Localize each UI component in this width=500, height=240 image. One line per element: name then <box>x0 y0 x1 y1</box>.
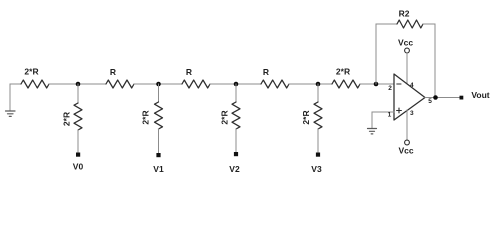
resistor R2 (feedback, horizontal) <box>397 20 423 28</box>
resistor 2*R (V3 branch, vertical) <box>314 102 322 129</box>
svg-text:5: 5 <box>428 98 432 105</box>
op-amp minus sign <box>397 83 401 85</box>
wire V3 branch upper <box>317 84 319 102</box>
svg-text:R2: R2 <box>399 9 410 19</box>
svg-text:Vcc: Vcc <box>398 146 413 156</box>
node B junction <box>156 82 161 87</box>
svg-text:2*R: 2*R <box>336 67 350 77</box>
wire V3 branch lower <box>317 129 319 153</box>
svg-text:2*R: 2*R <box>220 110 230 124</box>
svg-text:V1: V1 <box>153 164 164 174</box>
ground (op-amp + input) <box>368 129 377 134</box>
svg-text:V3: V3 <box>311 164 322 174</box>
terminal V2 <box>234 152 238 156</box>
svg-text:R: R <box>186 67 192 77</box>
svg-text:V0: V0 <box>73 162 84 172</box>
svg-text:V2: V2 <box>229 164 240 174</box>
node F junction (feedback to output) <box>433 95 438 100</box>
node A junction <box>76 82 81 87</box>
wire node C segment <box>210 83 261 85</box>
terminal V3 <box>316 153 320 157</box>
wire to op-amp input <box>360 83 394 85</box>
op-amp plus sign <box>397 110 402 112</box>
svg-text:1: 1 <box>388 112 392 119</box>
wire V0 branch upper <box>77 84 79 103</box>
wire node B segment <box>134 83 182 85</box>
wire V2 branch upper <box>235 84 237 102</box>
wire Vcc top to pin 4 <box>406 53 408 84</box>
op-amp U1 triangle <box>394 74 425 120</box>
resistor R (third, horizontal) <box>261 80 289 88</box>
resistor 2*R (series to op-amp, horizontal) <box>332 80 360 88</box>
terminal V1 <box>156 153 160 157</box>
svg-text:2*R: 2*R <box>141 110 151 124</box>
wire left vertical to ground <box>9 84 11 111</box>
wire node A segment <box>49 83 106 85</box>
svg-text:R: R <box>110 67 116 77</box>
resistor 2*R (leftmost, horizontal) <box>21 80 49 88</box>
node C junction <box>234 82 239 87</box>
ground <box>6 111 16 116</box>
svg-text:2*R: 2*R <box>24 67 38 77</box>
wire V0 branch lower <box>77 130 79 153</box>
wire rail left lead <box>10 83 21 85</box>
svg-text:2*R: 2*R <box>301 110 311 124</box>
terminal V0 <box>76 153 80 157</box>
node D junction <box>316 82 321 87</box>
svg-text:R: R <box>263 67 269 77</box>
wire output <box>425 97 460 99</box>
svg-text:2*R: 2*R <box>62 112 72 126</box>
wire V1 branch upper <box>158 84 160 102</box>
Vcc (bottom) pin circle and label <box>405 140 410 145</box>
node E junction (feedback tap) <box>374 82 379 87</box>
resistor 2*R (V2 branch, vertical) <box>232 102 240 129</box>
svg-text:3: 3 <box>410 110 414 117</box>
svg-text:Vout: Vout <box>471 90 489 100</box>
svg-text:2: 2 <box>388 85 392 92</box>
resistor R (first, horizontal) <box>106 80 134 88</box>
resistor 2*R (V0 branch, vertical) <box>74 103 82 130</box>
wire V1 branch lower <box>158 129 160 153</box>
wire feedback down-right <box>423 24 435 98</box>
wire feedback up-left <box>376 24 397 84</box>
resistor R (second, horizontal) <box>182 80 210 88</box>
terminal Vout <box>460 96 464 100</box>
wire pin 3 down <box>406 110 408 140</box>
wire node D segment <box>289 83 332 85</box>
resistor 2*R (V1 branch, vertical) <box>155 102 163 129</box>
wire pin 1 to ground <box>372 112 394 128</box>
wire V2 branch lower <box>235 129 237 152</box>
svg-text:Vcc: Vcc <box>398 38 413 48</box>
